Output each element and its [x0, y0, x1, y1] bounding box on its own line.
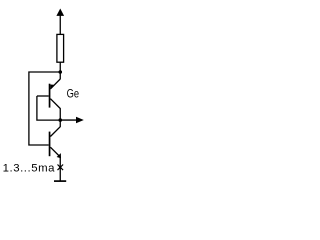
svg-text:1.3...5ma: 1.3...5ma: [3, 163, 56, 175]
output wire: [60, 119, 77, 121]
transistor Q1 emitter arrow (PNP, points into bar): [51, 85, 55, 90]
node A junction dot: [58, 70, 62, 74]
resistor R1: [57, 34, 64, 62]
terminal bar (ground): [54, 180, 66, 182]
transistor Q2 base bar (NPN): [49, 132, 51, 157]
transistor Q2 emitter arrow (NPN, points out): [57, 153, 61, 158]
power supply arrow (up): [56, 9, 64, 16]
transistor Q2 emitter lead: [50, 147, 60, 157]
transistor Q1 base bar (PNP Ge): [49, 84, 51, 108]
transistor Q1 emitter lead: [50, 79, 60, 89]
wire supply to R1: [59, 15, 61, 35]
current mark (star) on emitter wire: [58, 165, 64, 171]
wire node B to Q2 collector: [59, 120, 61, 127]
svg-text:Ge: Ge: [67, 88, 80, 101]
node B junction dot: [58, 118, 62, 122]
wire Q1 base: [37, 95, 49, 97]
wire R1 to node A: [59, 62, 61, 79]
wire node A to left rail and down to Q2 base: [29, 72, 60, 145]
output arrow (right): [76, 117, 84, 124]
wire Q1 collector to node B: [59, 108, 61, 120]
transistor Q1 collector lead: [50, 99, 60, 109]
wire Q2 emitter to terminal: [59, 157, 61, 182]
wire Q1 base to node B: [37, 96, 59, 120]
transistor Q2 collector lead: [50, 127, 60, 137]
